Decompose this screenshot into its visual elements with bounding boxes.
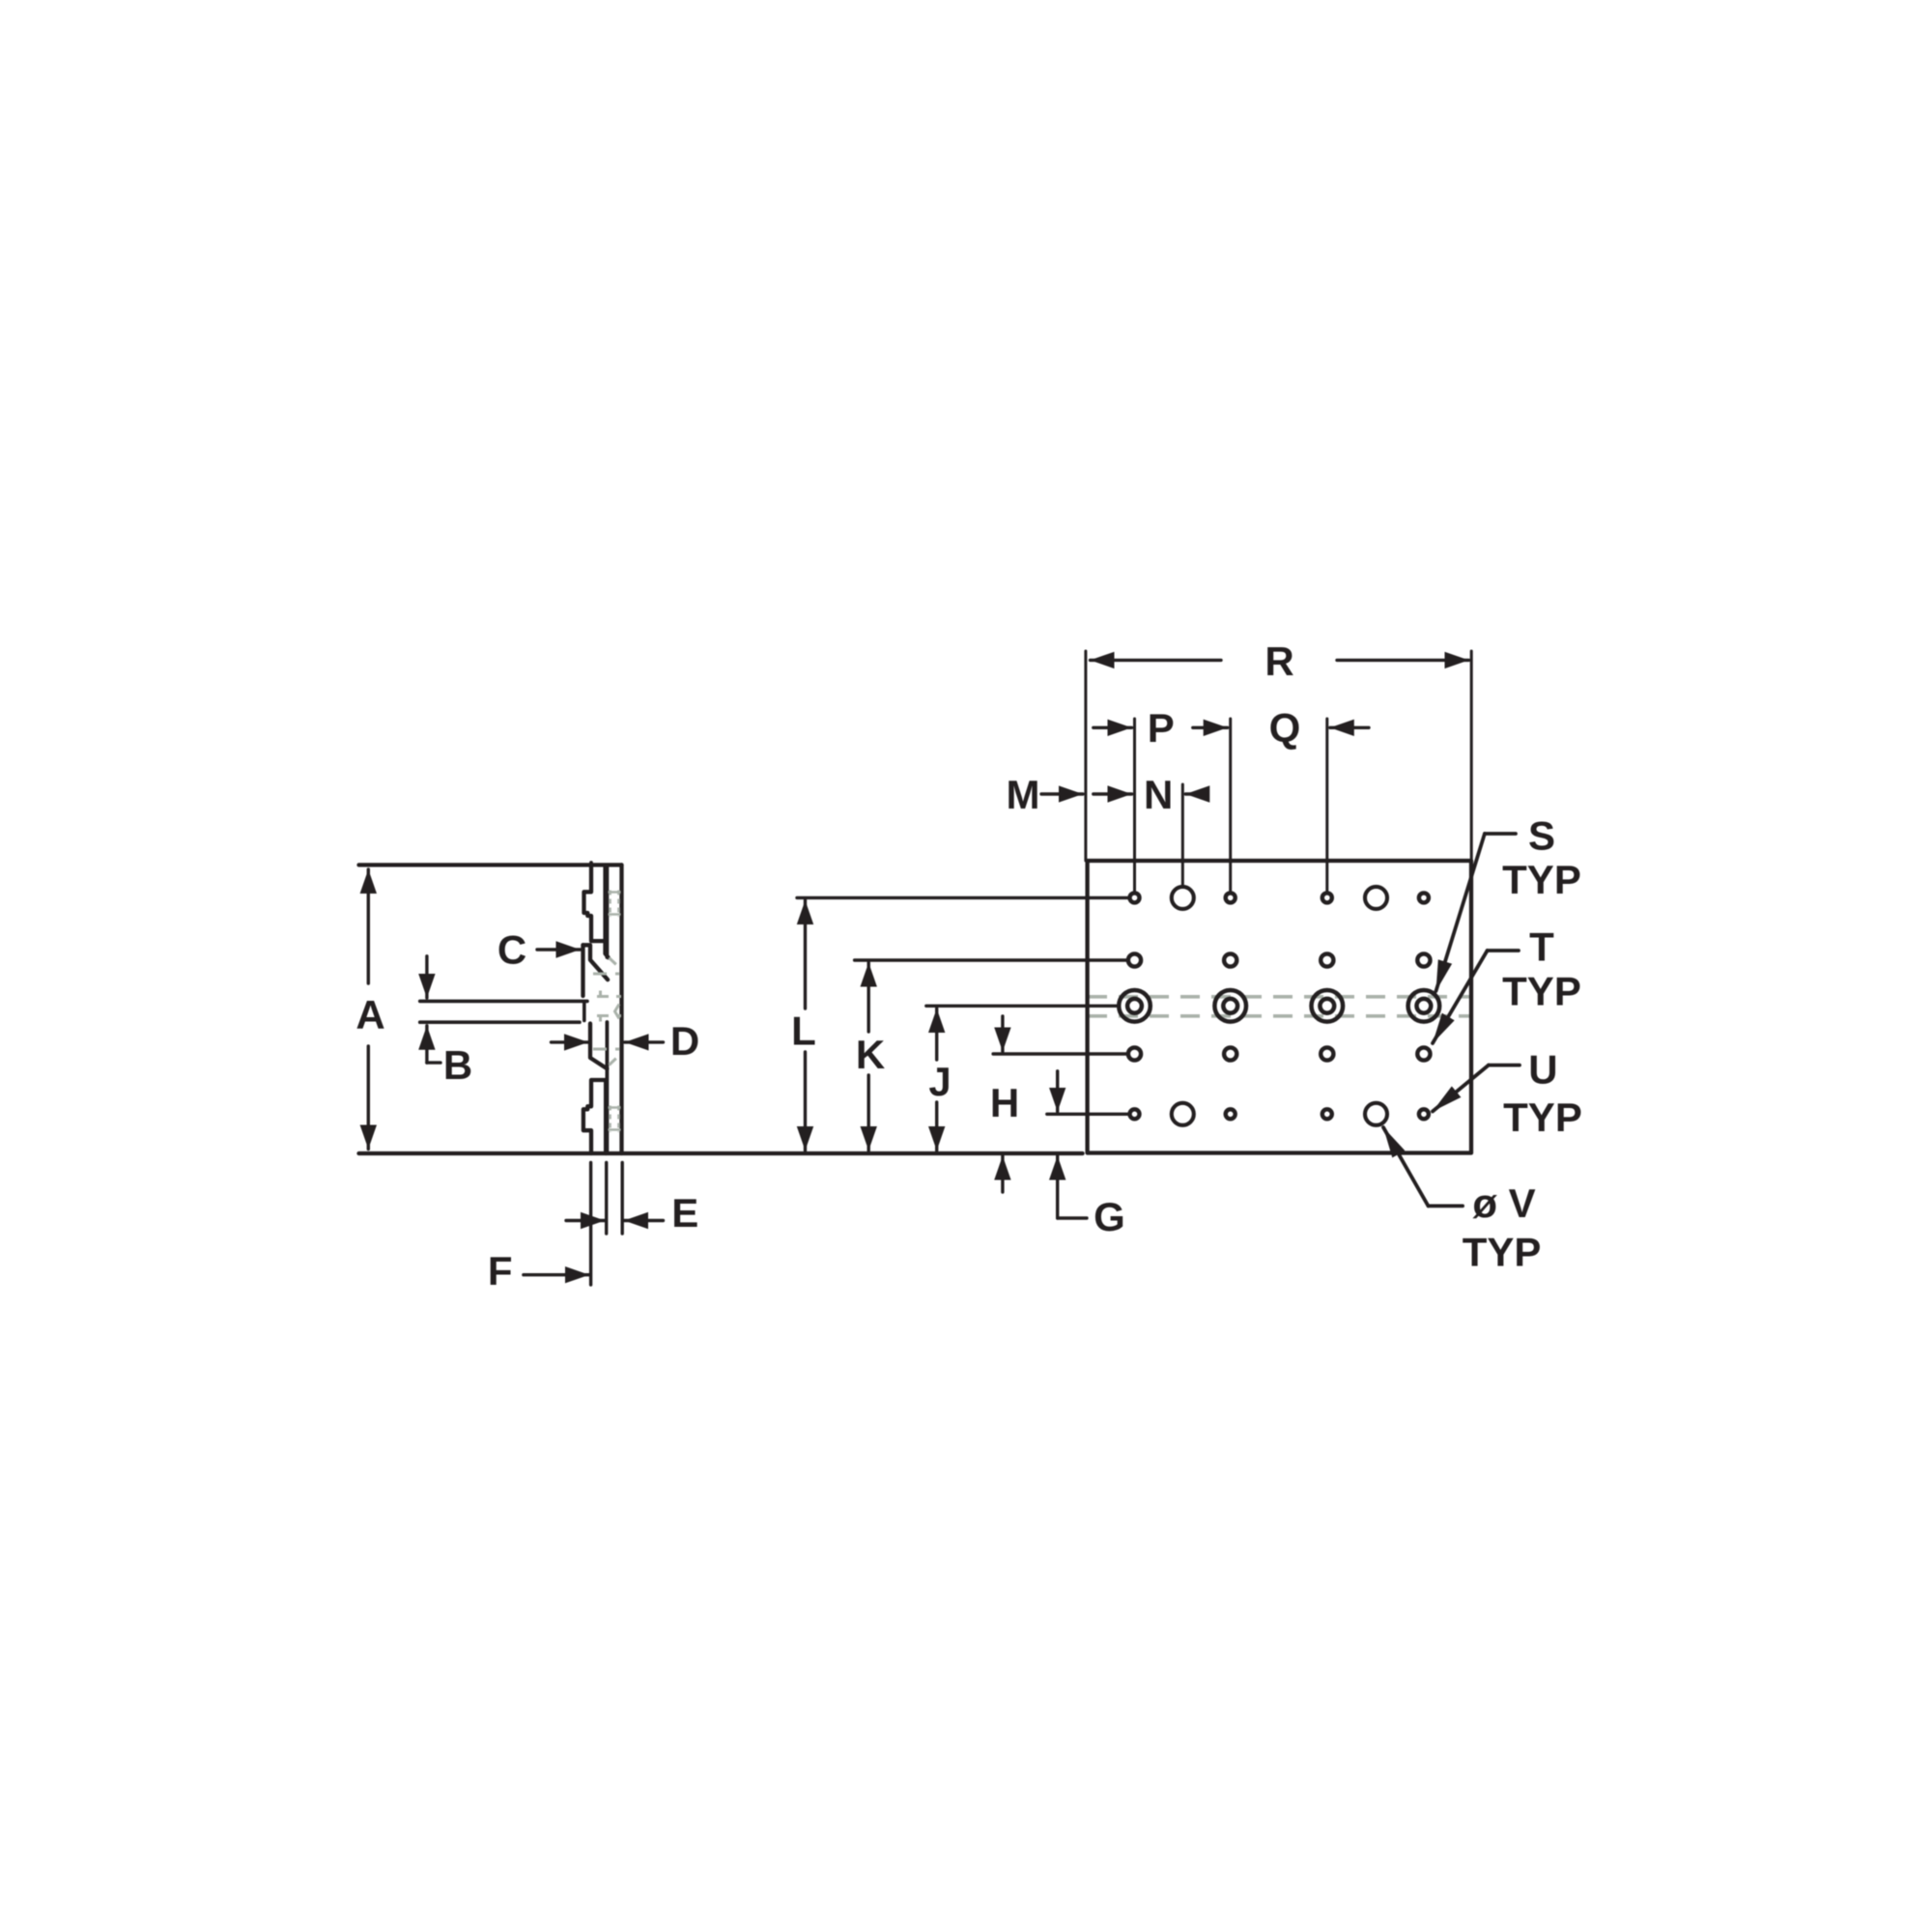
svg-text:T: T	[1529, 924, 1554, 970]
svg-text:F: F	[488, 1248, 513, 1293]
svg-text:TYP: TYP	[1503, 1094, 1582, 1140]
hidden counterbore hole lower line (gray dashed)	[597, 1014, 621, 1017]
dimension F arrow	[524, 1273, 589, 1276]
dimension H lower arrow	[1001, 1156, 1004, 1193]
dimension D right arrow	[625, 1040, 664, 1043]
profile front column with top notch	[584, 865, 609, 957]
R extension line right	[1470, 651, 1473, 861]
dimension G lower arrow	[1056, 1156, 1059, 1219]
svg-text:TYP: TYP	[1463, 1230, 1542, 1275]
dimension G bracket	[1058, 1216, 1087, 1219]
dimension M arrow	[1041, 792, 1083, 795]
row 5 leader line (G)	[1047, 1113, 1128, 1116]
svg-text:E: E	[671, 1190, 698, 1236]
dimension K arrows	[867, 963, 870, 1033]
column 3 extension line	[1229, 719, 1232, 891]
R extension line left	[1084, 651, 1087, 861]
dimension P left arrow	[1094, 726, 1132, 729]
svg-text:TYP: TYP	[1502, 857, 1581, 902]
dimension B bracket	[427, 1061, 440, 1064]
dimension A arrow down	[367, 1046, 370, 1150]
svg-text:N: N	[1144, 772, 1173, 817]
svg-text:ø V: ø V	[1472, 1180, 1535, 1226]
hidden chamfer edge lower (gray dashed)	[610, 1056, 620, 1065]
profile front column right face	[603, 865, 607, 941]
row 3 counterbored holes	[1119, 990, 1439, 1022]
svg-text:Q: Q	[1269, 705, 1301, 751]
dimension G upper arrow	[1056, 1071, 1059, 1112]
hidden counterbore step (gray dashed)	[599, 991, 602, 1022]
column 2 extension line	[1181, 784, 1184, 885]
row 5 holes	[1130, 1109, 1140, 1119]
dimension Q arrow	[1330, 726, 1369, 729]
row 3 leader line (J)	[926, 1005, 1117, 1008]
column 4 extension line	[1325, 719, 1328, 891]
clip tab front face	[581, 945, 584, 996]
svg-text:TYP: TYP	[1502, 969, 1581, 1014]
column 1 extension line	[1133, 719, 1136, 891]
hidden thread marks lower (gray)	[611, 1106, 619, 1133]
hidden counterbore hole upper line (gray dashed)	[597, 995, 621, 998]
svg-text:L: L	[791, 1009, 816, 1054]
dimension B arrow up	[425, 1026, 428, 1063]
dimension H upper arrow	[1001, 1016, 1004, 1052]
lower tab with bottom notch	[583, 1080, 606, 1153]
top edge stub above profile	[589, 863, 593, 867]
side view bottom edge / dimension baseline	[359, 1151, 1083, 1155]
hidden center lines through counterbores (gray dashed)	[1088, 995, 1470, 999]
dimension D left arrow	[552, 1040, 589, 1043]
svg-text:D: D	[670, 1018, 699, 1064]
svg-text:C: C	[497, 927, 526, 973]
S leader	[1485, 832, 1516, 836]
bottom extension stubs below baseline	[589, 1163, 592, 1286]
dimension E right arrow	[624, 1219, 664, 1222]
T leader	[1488, 949, 1519, 952]
dimension B arrow down	[425, 956, 428, 998]
plate outline	[1088, 861, 1471, 1153]
svg-text:A: A	[355, 992, 384, 1037]
svg-text:G: G	[1094, 1194, 1125, 1239]
slot end step	[582, 1003, 586, 1021]
svg-text:P: P	[1148, 705, 1175, 751]
row 2 leader line (K)	[855, 958, 1126, 961]
side view top edge line	[359, 863, 622, 867]
row 1 holes	[1130, 893, 1140, 902]
row 4 holes	[1128, 1047, 1141, 1060]
svg-text:J: J	[928, 1059, 951, 1104]
dimension E left arrow	[566, 1219, 605, 1222]
hidden cavity top edge (gray dashed)	[593, 973, 619, 976]
dimension R left arrow	[1091, 659, 1222, 662]
dimension N left arrow	[1094, 792, 1132, 795]
dimension N right arrow	[1185, 792, 1207, 795]
row 4 leader line (H)	[993, 1052, 1126, 1055]
slot lower line (B slot)	[420, 1020, 580, 1024]
svg-text:U: U	[1528, 1047, 1557, 1093]
svg-text:H: H	[990, 1080, 1019, 1125]
dimension A arrow up	[367, 869, 370, 983]
back plate left face upper	[606, 865, 610, 957]
back plate right face	[619, 865, 623, 1153]
row 2 holes	[1128, 953, 1141, 966]
hidden thread marks upper (gray)	[611, 891, 619, 918]
hidden chamfer edge upper (gray dashed)	[610, 958, 620, 968]
dimension C arrow	[537, 948, 581, 951]
dimension P right arrow	[1193, 726, 1228, 729]
lower tab right face	[604, 1080, 608, 1153]
svg-text:R: R	[1264, 639, 1293, 684]
V leader	[1429, 1205, 1463, 1208]
svg-text:S: S	[1528, 812, 1555, 858]
dimension L arrows	[804, 900, 807, 1009]
dimension R right arrow	[1337, 659, 1469, 662]
svg-text:B: B	[443, 1042, 472, 1088]
svg-text:K: K	[856, 1032, 885, 1077]
row 1 leader line (L)	[797, 896, 1127, 899]
U leader	[1489, 1064, 1520, 1067]
hidden drill point (gray dashed)	[615, 1005, 620, 1019]
slot upper line (B slot)	[420, 1000, 587, 1004]
dimension J arrows	[935, 1009, 938, 1060]
clip tab lip (C feature)	[583, 945, 609, 980]
back plate left face lower	[606, 1022, 610, 1153]
hidden cavity bottom edge (gray dashed)	[593, 1048, 619, 1051]
svg-text:M: M	[1007, 772, 1040, 817]
profile below slot with lower chamfer	[590, 1024, 607, 1069]
